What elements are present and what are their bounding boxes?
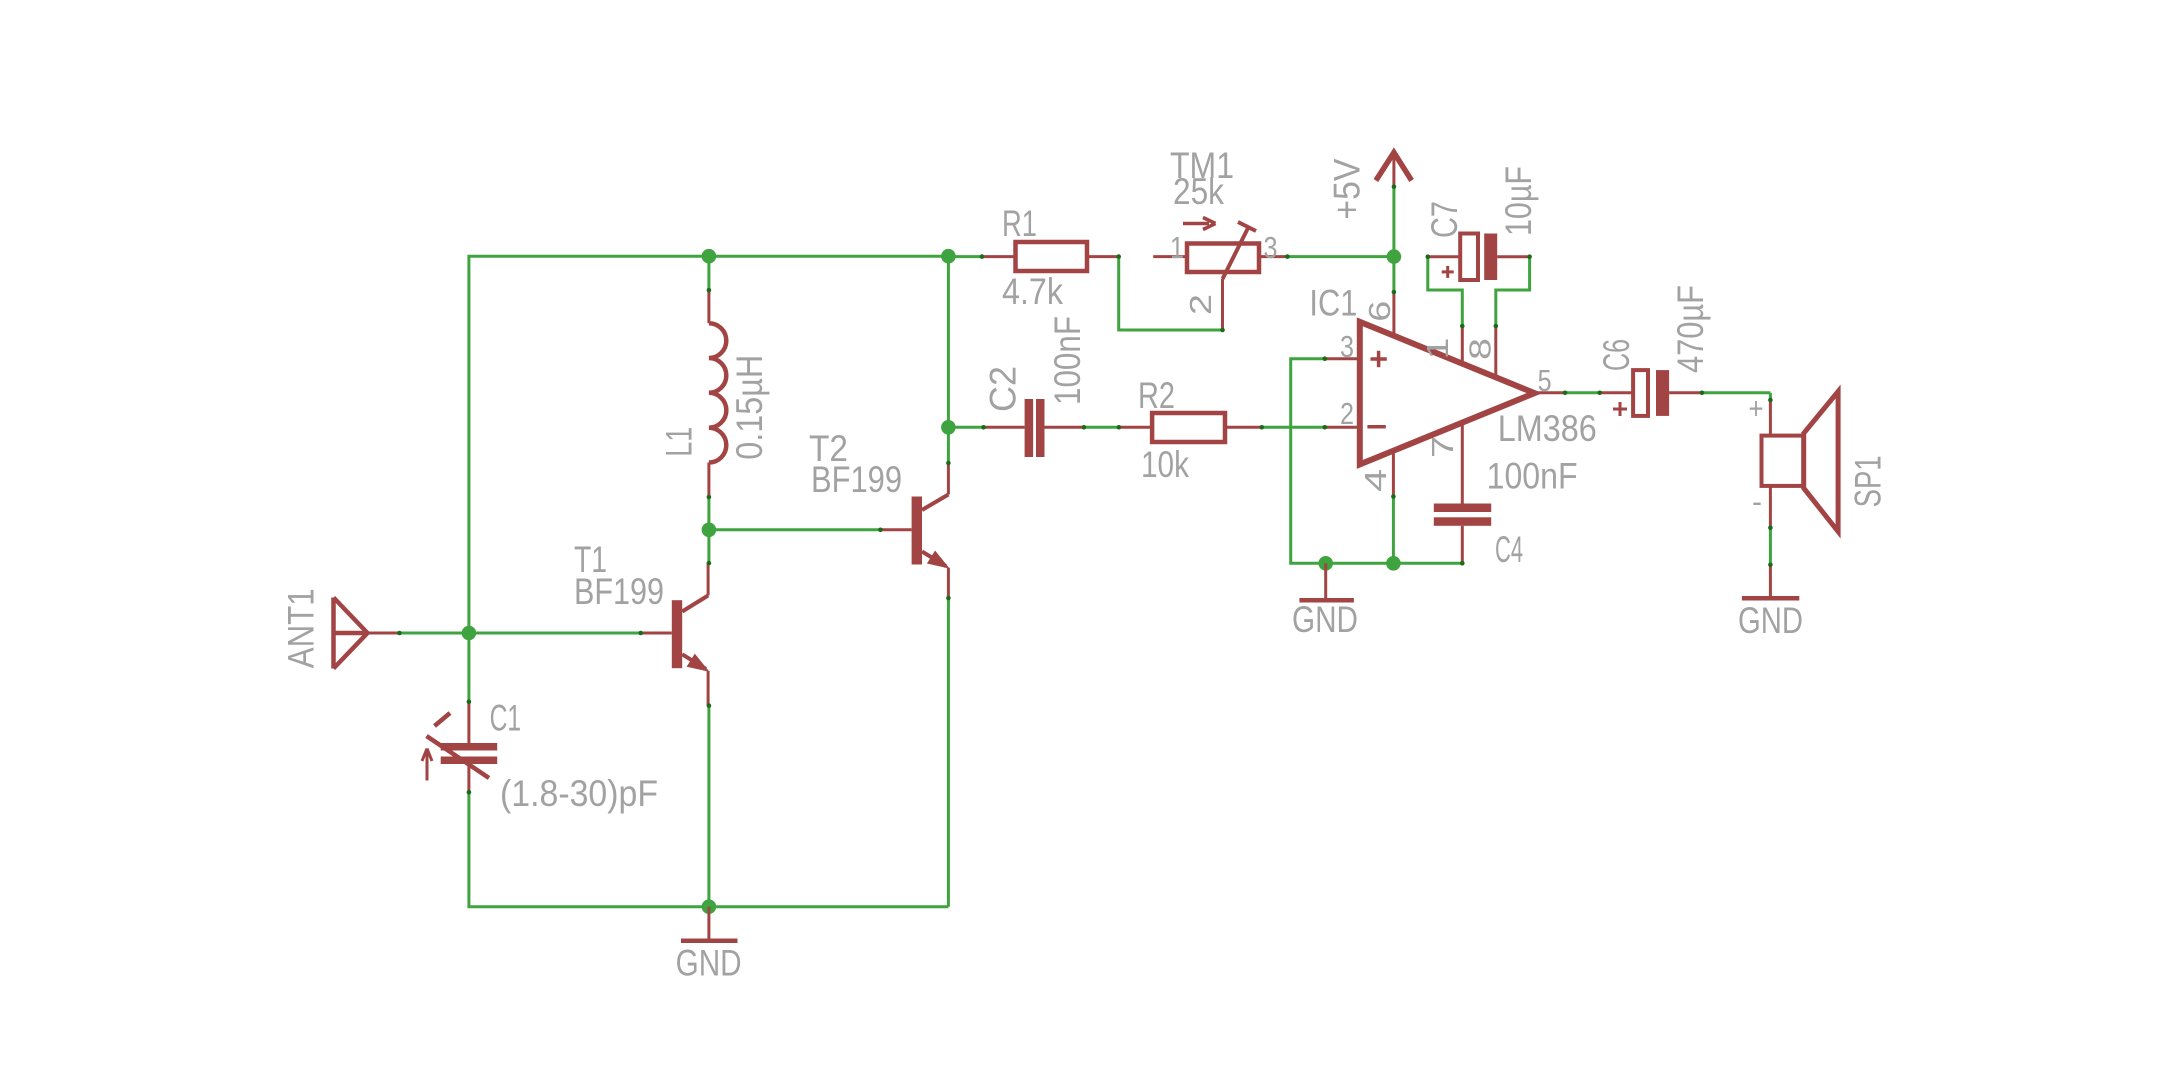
- pin 3 stub IC1: [1325, 357, 1357, 360]
- node junction T2 collector / C2 branch: [941, 420, 956, 435]
- svg-text:5: 5: [1538, 363, 1552, 398]
- svg-text:1: 1: [1170, 230, 1184, 265]
- wire joint ticks at pin connections: [397, 631, 402, 636]
- wire TM1 pin3 to +5V junction: [1287, 255, 1394, 258]
- wire L1 bottom to T1 collector and T2 base: [707, 497, 710, 563]
- wire bottom rail: [469, 792, 949, 906]
- ground symbol IC GND: [1324, 563, 1327, 598]
- transistor T1: [641, 632, 672, 635]
- svg-text:6: 6: [1362, 301, 1397, 322]
- wire R1 left: [948, 255, 982, 258]
- electrolytic capacitor C7: [1428, 255, 1460, 258]
- wire T1 emitter down to bottom rail: [707, 706, 710, 907]
- node junction top rail / L1: [702, 249, 717, 264]
- antenna ANT1: [331, 598, 336, 669]
- svg-text:7: 7: [1425, 436, 1460, 458]
- svg-text:C7: C7: [1424, 201, 1465, 238]
- svg-text:2: 2: [1340, 396, 1354, 431]
- svg-text:100nF: 100nF: [1047, 316, 1088, 405]
- wire antenna to T1 base: [399, 632, 640, 635]
- plus marker C6: [1613, 408, 1627, 411]
- variable capacitor C1: [467, 702, 470, 743]
- wire IC1 pin 3 loop down to GND rail: [1291, 359, 1463, 564]
- svg-text:4: 4: [1358, 469, 1393, 492]
- wire IC1 pin 5 to C6: [1565, 391, 1600, 394]
- wire +5V junction down to IC1 pin 6: [1392, 257, 1395, 292]
- op-amp IC1 LM386: [1360, 322, 1535, 465]
- wire C2 to R2: [1084, 426, 1119, 429]
- svg-text:3: 3: [1340, 329, 1354, 364]
- svg-text:C2: C2: [983, 366, 1024, 412]
- minus marker IC1: [1367, 425, 1385, 429]
- wire top rail from left loop to R1 junction: [469, 256, 949, 702]
- plus marker IC1: [1371, 357, 1387, 361]
- svg-text:(1.8-30)pF: (1.8-30)pF: [500, 773, 658, 814]
- transistor T2: [881, 528, 912, 531]
- wire T2 emitter down to bottom rail: [947, 598, 950, 907]
- svg-text:R2: R2: [1138, 375, 1175, 416]
- plus marker C7: [1442, 270, 1454, 273]
- capacitor C4: [1434, 504, 1491, 513]
- pin 1 stub IC1: [1461, 326, 1464, 366]
- power +5V symbol: [1376, 153, 1412, 181]
- svg-text:GND: GND: [1292, 599, 1358, 640]
- svg-text:1: 1: [1420, 338, 1455, 360]
- pin 5 output stub IC1: [1535, 391, 1566, 394]
- wire T2 collector to C2 junction and top rail: [947, 256, 950, 463]
- node junction GND rail / pin4: [1386, 556, 1401, 571]
- pin 7 stub IC1: [1461, 420, 1464, 504]
- svg-text:L1: L1: [659, 427, 700, 457]
- svg-text:LM386: LM386: [1498, 408, 1597, 449]
- resistor R2: [1119, 426, 1152, 429]
- svg-text:3: 3: [1264, 230, 1278, 265]
- wire +5V arrow stub: [1392, 187, 1395, 257]
- trimmer potentiometer TM1: [1153, 255, 1187, 258]
- ground symbol main GND: [707, 907, 710, 939]
- node junction L1 / T1 collector / T2 base: [702, 523, 717, 538]
- wire C7 left bracket to IC1 pin 1: [1428, 257, 1463, 326]
- svg-text:2: 2: [1183, 294, 1218, 315]
- svg-text:C4: C4: [1495, 529, 1523, 570]
- resistor R1: [982, 255, 1016, 258]
- svg-text:R1: R1: [1002, 203, 1037, 244]
- svg-text:25k: 25k: [1173, 171, 1224, 212]
- svg-text:IC1: IC1: [1309, 283, 1357, 324]
- svg-text:BF199: BF199: [811, 459, 902, 500]
- wire R2 to IC1 pin 2: [1262, 426, 1325, 429]
- node junction +5V / pin6: [1387, 249, 1402, 264]
- svg-text:+5V: +5V: [1326, 158, 1367, 219]
- svg-text:GND: GND: [676, 943, 742, 984]
- svg-text:0.15µH: 0.15µH: [729, 355, 770, 460]
- pin 4 stub IC1: [1392, 449, 1395, 497]
- node junction top rail / R1 wire: [941, 249, 956, 264]
- ground symbol SP1 GND: [1769, 565, 1772, 596]
- svg-text:10µF: 10µF: [1498, 166, 1539, 236]
- speaker SP1: [1769, 400, 1772, 436]
- wire L1 top stub net: [707, 256, 710, 290]
- wire SP1 minus to GND: [1769, 528, 1772, 565]
- wire C7 right bracket to IC1 pin 8: [1496, 257, 1530, 326]
- svg-text:C6: C6: [1596, 339, 1637, 371]
- pin 2 stub IC1: [1325, 426, 1357, 429]
- svg-text:470µF: 470µF: [1670, 285, 1711, 373]
- wire C6 to SP1: [1702, 391, 1771, 394]
- wire IC1 pin 4 to GND rail: [1392, 497, 1395, 564]
- svg-text:4.7k: 4.7k: [1002, 271, 1063, 312]
- wire C2 junction to C2: [948, 426, 983, 429]
- svg-text:ANT1: ANT1: [281, 588, 322, 668]
- svg-text:100nF: 100nF: [1487, 456, 1578, 497]
- svg-text:GND: GND: [1738, 600, 1803, 641]
- svg-text:+: +: [1749, 391, 1764, 426]
- svg-text:SP1: SP1: [1848, 455, 1889, 507]
- svg-text:BF199: BF199: [574, 571, 664, 612]
- inductor L1: [707, 290, 710, 323]
- pin 8 stub IC1: [1494, 326, 1497, 380]
- svg-text:C1: C1: [490, 698, 521, 739]
- svg-text:10k: 10k: [1141, 444, 1189, 485]
- node junction bottom rail / T1 emitter / GND: [702, 899, 717, 914]
- svg-text:8: 8: [1463, 338, 1498, 360]
- electrolytic capacitor C6: [1600, 391, 1633, 394]
- node junction GND rail / GND symbol: [1318, 556, 1333, 571]
- wire R1 right down to TM1 wiper: [1119, 257, 1223, 330]
- capacitor C2: [984, 426, 1025, 429]
- node junction antenna/left rail: [462, 626, 477, 641]
- pin 6 stub IC1: [1392, 292, 1395, 338]
- svg-text:-: -: [1752, 484, 1762, 519]
